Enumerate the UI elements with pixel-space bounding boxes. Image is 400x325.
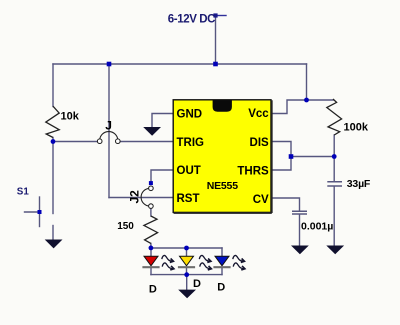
resistor 150 zigzag: [144, 216, 158, 243]
svg-text:100k: 100k: [344, 122, 369, 134]
wire 100k bottom lead: [333, 135, 335, 157]
svg-text:NE555: NE555: [207, 180, 238, 192]
node S1 actuator: [38, 210, 42, 214]
svg-text:33µF: 33µF: [347, 178, 371, 190]
wire OUT pin to J2: [151, 170, 173, 181]
ground S1: [45, 240, 63, 249]
svg-text:Vcc: Vcc: [248, 108, 269, 120]
node 150 / LED rail: [149, 246, 154, 251]
jumper J arc: [100, 132, 118, 141]
wire DIS/THRS node to 100k bottom node: [291, 156, 334, 158]
ground GND pin: [143, 127, 161, 136]
wire 100k node down to 33uF cap: [333, 157, 335, 182]
node yellow LED bottom / ground: [184, 272, 189, 277]
node supply terminal: [213, 13, 217, 17]
pushbutton S1 plate: [39, 197, 41, 227]
svg-text:150: 150: [117, 221, 134, 232]
wire TRIG node to jumper J left contact: [53, 141, 98, 143]
svg-text:TRIG: TRIG: [177, 137, 205, 149]
wire LED top rail: [151, 247, 222, 249]
wire 150 bottom to LED rail: [150, 243, 152, 248]
wire GND pin to ground: [152, 114, 173, 128]
svg-text:0.001µ: 0.001µ: [301, 221, 333, 233]
wire CV pin to 0.001u cap: [271, 198, 300, 211]
svg-text:10k: 10k: [61, 110, 80, 122]
wire LED rail to center ground: [186, 275, 188, 290]
node DIS/THRS: [289, 154, 294, 159]
LED D blue light arrows: [233, 255, 245, 269]
IC notch: [213, 100, 232, 112]
LED D yellow light arrows: [199, 255, 211, 269]
capacitor 0.001u plates: [292, 211, 307, 214]
wire left branch down to 10k: [52, 64, 54, 107]
wire Vcc pin route to rail corner: [271, 64, 307, 114]
wire LED bottom rail: [151, 274, 222, 276]
jumper J2 bottom contact: [149, 204, 154, 209]
node TRIG / 10k: [51, 139, 56, 144]
wire S1 lower terminal to ground: [52, 226, 54, 240]
node OUT end square: [149, 181, 153, 185]
wire DIS pin bend down: [271, 142, 291, 157]
pushbutton S1 stem: [25, 211, 40, 213]
op-amp U1 NE555 body: [173, 100, 272, 213]
jumper J2 top contact: [149, 186, 154, 191]
jumper J right contact: [116, 139, 121, 144]
node 100k / 33uF: [332, 154, 337, 159]
wire supply stub right of terminal: [216, 15, 227, 17]
wire J2 bottom contact to 150 resistor: [150, 208, 152, 216]
wire 0.001u cap to ground: [299, 214, 301, 245]
ground LEDs: [178, 290, 196, 299]
svg-text:D: D: [217, 282, 225, 294]
svg-text:J: J: [105, 119, 112, 133]
wire jumper J right contact to TRIG pin: [120, 141, 173, 143]
node Vcc rail corner: [304, 98, 309, 103]
wire red LED stubs: [150, 248, 152, 275]
svg-text:6-12V DC: 6-12V DC: [168, 13, 215, 25]
jumper J2 arc: [141, 188, 150, 206]
svg-text:RST: RST: [177, 193, 200, 205]
wire 33uF cap to ground: [333, 187, 335, 246]
wire top V+ rail: [53, 63, 307, 65]
svg-text:OUT: OUT: [177, 165, 201, 177]
svg-text:D: D: [149, 283, 157, 295]
LED D blue: [213, 256, 230, 267]
wire THRS pin bend up: [271, 157, 291, 171]
node V+ rail / RST drop: [107, 62, 112, 67]
wire yellow LED stubs: [186, 248, 188, 275]
LED D red light arrows: [162, 255, 174, 269]
capacitor 33uF plates: [327, 182, 342, 186]
LED D yellow: [178, 256, 195, 267]
svg-text:THRS: THRS: [237, 165, 269, 177]
wire 10k bottom to TRIG node and down to S1: [52, 138, 54, 214]
svg-text:S1: S1: [17, 187, 30, 198]
wire V+ drop to RST: [108, 64, 110, 198]
jumper J left contact: [97, 139, 102, 144]
node V+ rail / supply: [213, 62, 218, 67]
wire RST horizontal: [109, 197, 173, 199]
ground 0.001u: [291, 246, 309, 255]
resistor 10k zigzag: [46, 106, 59, 137]
node yellow LED top: [184, 246, 189, 251]
resistor 100k zigzag: [327, 99, 342, 135]
svg-text:CV: CV: [253, 194, 269, 206]
wire rail node to 100k top: [307, 99, 334, 101]
svg-text:DIS: DIS: [250, 137, 270, 149]
svg-text:GND: GND: [177, 109, 203, 121]
svg-text:D: D: [193, 278, 201, 290]
svg-text:J2: J2: [127, 190, 141, 204]
wire blue LED stubs: [221, 248, 223, 275]
ground 33uF: [326, 246, 344, 255]
LED D red: [142, 256, 159, 267]
wire supply drop to rail: [215, 16, 217, 65]
